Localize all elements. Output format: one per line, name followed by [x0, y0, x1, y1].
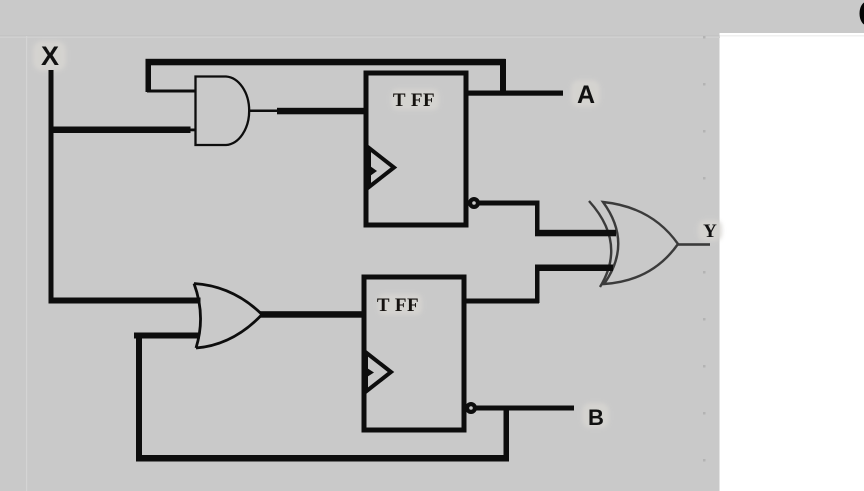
wire bottom feedback vertical [136, 333, 142, 461]
wire X to AND gate lower input [49, 127, 191, 134]
wire Y output [677, 243, 710, 246]
faint seam in white panel [720, 35, 864, 36]
or-gate G2 [194, 284, 262, 349]
bubble FF1 Qbar [470, 199, 478, 207]
wire OR lower input [134, 333, 200, 339]
wire FF2 Q horizontal [464, 299, 539, 304]
wire XOR upper input [535, 230, 616, 237]
svg-text:A: A [577, 81, 595, 109]
flip-flop U1 box [366, 73, 466, 225]
wire X vertical [49, 70, 54, 303]
svg-text:B: B [588, 405, 604, 430]
xor-gate G3 body [603, 202, 678, 284]
wire FF2 Qbar to B [475, 406, 574, 411]
bubble FF2 Qbar [467, 404, 475, 412]
partial glyph top-right [860, 2, 864, 26]
wire AND output thin [249, 110, 279, 113]
and-gate G1 [196, 77, 250, 146]
wire X to OR upper input [49, 298, 201, 304]
faint seam top [0, 35, 720, 36]
wire FF1 Qbar horizontal [478, 201, 539, 206]
label halos [33, 41, 722, 428]
wire OR output to FF2 [260, 311, 366, 318]
clock triangle U2 [366, 353, 391, 392]
wire jog down to XOR upper [535, 201, 540, 234]
white panel right [720, 33, 864, 491]
clock tick U1 [370, 166, 377, 176]
faint seam left [26, 36, 27, 491]
clock triangle U1 [369, 148, 394, 187]
wire jog up to XOR lower [535, 265, 540, 303]
svg-text:X: X [41, 41, 59, 71]
wire XOR lower input [535, 265, 613, 272]
svg-text:Y: Y [703, 221, 717, 242]
faint dotted textbox border [703, 36, 706, 462]
wire bottom feedback horizontal [136, 455, 509, 462]
wire AND upper input [147, 90, 196, 93]
clock tick U2 [367, 368, 374, 377]
flip-flop U2 box [364, 277, 464, 430]
svg-text:T FF: T FF [377, 295, 419, 316]
svg-text:T FF: T FF [393, 90, 435, 111]
wire AND lower input stub [186, 129, 196, 132]
wire junction down from B wire [504, 406, 510, 461]
wire top feedback vertical (A to AND) [146, 59, 152, 92]
xor-gate G3 outer arc [589, 201, 611, 287]
wire AND output to FF1 [277, 108, 368, 115]
wire FF1 Q to A [466, 91, 563, 96]
wire top feedback horizontal [146, 59, 506, 66]
wire top feedback right vertical [500, 59, 506, 95]
